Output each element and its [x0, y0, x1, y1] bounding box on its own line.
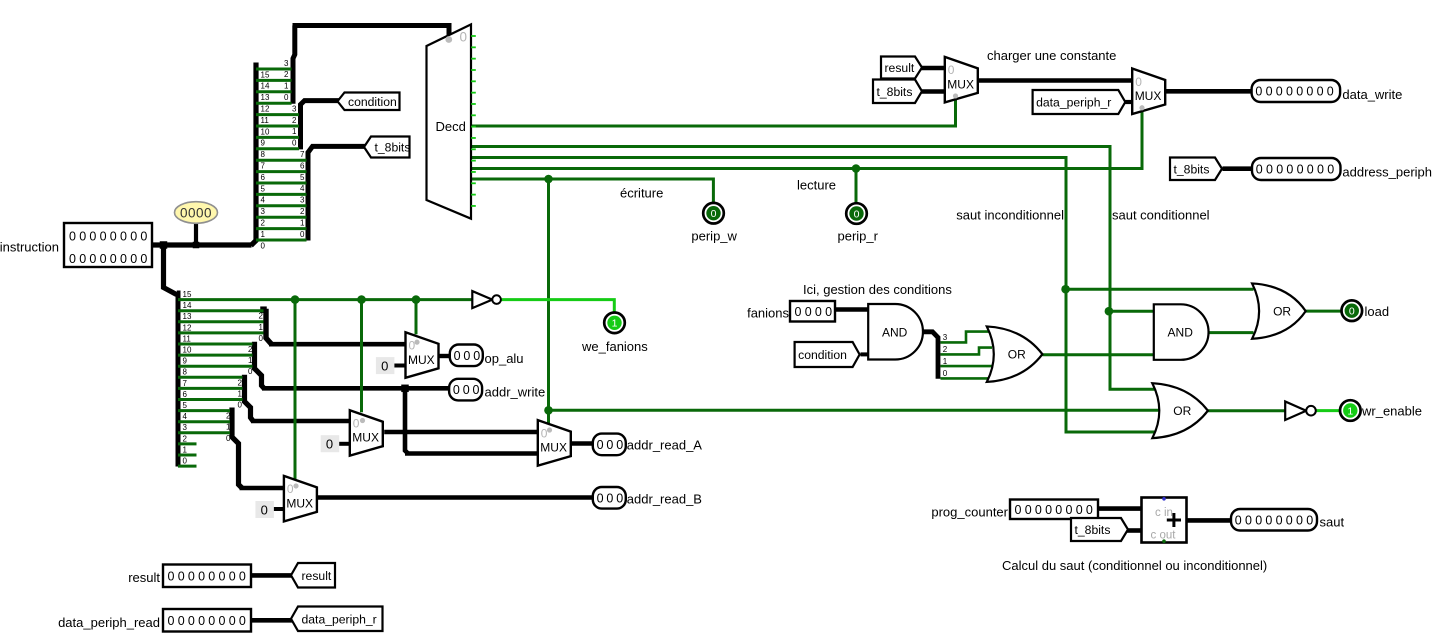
svg-text:2: 2 — [292, 116, 297, 125]
svg-text:MUX: MUX — [1135, 89, 1162, 103]
svg-text:0: 0 — [287, 482, 294, 496]
svg-text:perip_r: perip_r — [838, 229, 879, 244]
svg-text:AND: AND — [1168, 326, 1194, 340]
svg-text:3: 3 — [284, 59, 289, 68]
svg-text:OR: OR — [1273, 305, 1291, 319]
svg-text:7: 7 — [261, 162, 266, 171]
svg-text:2: 2 — [943, 345, 948, 354]
svg-text:00000000: 00000000 — [1015, 503, 1097, 517]
svg-text:0: 0 — [300, 230, 305, 239]
svg-text:MUX: MUX — [408, 353, 435, 367]
svg-text:MUX: MUX — [286, 496, 313, 510]
svg-text:address_periph: address_periph — [1342, 164, 1432, 179]
svg-text:2: 2 — [238, 378, 243, 387]
svg-text:3: 3 — [300, 196, 305, 205]
svg-text:2: 2 — [284, 70, 289, 79]
svg-text:data_write: data_write — [1342, 87, 1402, 102]
svg-text:00000000: 00000000 — [1255, 85, 1337, 99]
svg-text:1: 1 — [612, 318, 618, 330]
svg-text:c in: c in — [1155, 507, 1173, 519]
svg-text:8: 8 — [183, 368, 188, 377]
svg-text:2: 2 — [248, 345, 253, 354]
svg-text:000: 000 — [454, 349, 483, 363]
svg-text:4: 4 — [261, 196, 266, 205]
svg-text:prog_counter: prog_counter — [931, 505, 1008, 520]
svg-text:10: 10 — [261, 127, 270, 136]
svg-text:13: 13 — [261, 93, 270, 102]
svg-text:14: 14 — [261, 82, 270, 91]
svg-text:6: 6 — [261, 173, 266, 182]
svg-text:3: 3 — [261, 207, 266, 216]
svg-text:0: 0 — [353, 417, 360, 431]
svg-text:1: 1 — [943, 357, 948, 366]
svg-text:8: 8 — [261, 150, 266, 159]
svg-text:1: 1 — [248, 356, 253, 365]
svg-text:00000000: 00000000 — [69, 252, 151, 266]
svg-text:13: 13 — [183, 312, 192, 321]
svg-text:1: 1 — [284, 82, 289, 91]
svg-text:0: 0 — [381, 359, 388, 374]
svg-text:0: 0 — [854, 208, 860, 220]
svg-text:0: 0 — [1349, 306, 1355, 318]
svg-text:0: 0 — [943, 369, 948, 378]
svg-text:0: 0 — [409, 339, 416, 353]
svg-text:0: 0 — [460, 30, 468, 45]
svg-text:0: 0 — [226, 434, 231, 443]
svg-text:00000000: 00000000 — [168, 614, 250, 628]
svg-text:condition: condition — [348, 95, 397, 109]
svg-text:Decd: Decd — [436, 119, 466, 134]
svg-text:result: result — [302, 569, 332, 583]
svg-text:result: result — [128, 570, 160, 585]
svg-text:data_periph_r: data_periph_r — [1036, 96, 1111, 110]
svg-text:0: 0 — [261, 241, 266, 250]
svg-text:addr_read_A: addr_read_A — [627, 438, 702, 453]
svg-text:écriture: écriture — [620, 186, 663, 201]
svg-text:0: 0 — [183, 457, 188, 466]
svg-text:0: 0 — [948, 63, 955, 77]
svg-text:MUX: MUX — [947, 77, 974, 91]
svg-text:0: 0 — [284, 93, 289, 102]
svg-text:2: 2 — [300, 207, 305, 216]
svg-text:7: 7 — [183, 379, 188, 388]
svg-text:00000000: 00000000 — [69, 229, 151, 243]
svg-text:0000: 0000 — [795, 305, 836, 319]
svg-text:00000000: 00000000 — [1256, 163, 1338, 177]
svg-text:000: 000 — [597, 491, 626, 505]
svg-text:Ici, gestion des conditions: Ici, gestion des conditions — [803, 282, 952, 297]
svg-text:0: 0 — [238, 401, 243, 410]
svg-text:charger une constante: charger une constante — [987, 48, 1116, 63]
svg-text:t_8bits: t_8bits — [1174, 162, 1210, 176]
svg-text:00000000: 00000000 — [1235, 513, 1317, 527]
svg-text:1: 1 — [238, 389, 243, 398]
svg-text:0: 0 — [259, 334, 264, 343]
svg-text:t_8bits: t_8bits — [1075, 523, 1111, 537]
svg-text:3: 3 — [292, 104, 297, 113]
svg-text:OR: OR — [1173, 404, 1191, 418]
svg-text:0: 0 — [248, 367, 253, 376]
svg-text:result: result — [885, 61, 915, 75]
svg-text:addr_write: addr_write — [485, 385, 546, 400]
svg-text:000: 000 — [597, 438, 626, 452]
svg-text:0: 0 — [541, 426, 548, 440]
svg-text:MUX: MUX — [352, 431, 379, 445]
svg-text:12: 12 — [183, 323, 192, 332]
svg-text:15: 15 — [261, 70, 270, 79]
svg-text:6: 6 — [300, 161, 305, 170]
svg-text:6: 6 — [183, 390, 188, 399]
svg-text:000: 000 — [453, 383, 482, 397]
svg-text:5: 5 — [300, 173, 305, 182]
svg-text:t_8bits: t_8bits — [375, 141, 411, 155]
svg-text:15: 15 — [183, 290, 192, 299]
svg-text:4: 4 — [300, 184, 305, 193]
svg-text:we_fanions: we_fanions — [581, 339, 648, 354]
svg-text:3: 3 — [183, 423, 188, 432]
svg-text:12: 12 — [261, 105, 270, 114]
svg-text:0000: 0000 — [180, 205, 212, 220]
svg-text:saut inconditionnel: saut inconditionnel — [956, 208, 1064, 223]
svg-text:14: 14 — [183, 301, 192, 310]
svg-text:saut: saut — [1320, 515, 1345, 530]
svg-text:7: 7 — [300, 150, 305, 159]
svg-text:OR: OR — [1008, 348, 1026, 362]
svg-text:5: 5 — [183, 401, 188, 410]
svg-text:saut conditionnel: saut conditionnel — [1112, 208, 1210, 223]
svg-text:5: 5 — [261, 184, 266, 193]
svg-text:9: 9 — [183, 357, 188, 366]
svg-text:4: 4 — [183, 412, 188, 421]
svg-text:Calcul du saut (conditionnel o: Calcul du saut (conditionnel ou incondit… — [1002, 558, 1267, 573]
svg-text:0: 0 — [326, 437, 333, 452]
svg-text:11: 11 — [261, 116, 270, 125]
svg-text:perip_w: perip_w — [691, 229, 737, 244]
svg-text:2: 2 — [259, 312, 264, 321]
svg-text:t_8bits: t_8bits — [877, 85, 913, 99]
svg-text:1: 1 — [183, 445, 188, 454]
svg-text:1: 1 — [261, 230, 266, 239]
svg-text:1: 1 — [292, 127, 297, 136]
svg-text:00000000: 00000000 — [168, 569, 250, 583]
svg-text:wr_enable: wr_enable — [1361, 404, 1422, 419]
svg-text:0: 0 — [292, 139, 297, 148]
svg-text:0: 0 — [261, 503, 268, 518]
svg-text:3: 3 — [943, 333, 948, 342]
svg-text:10: 10 — [183, 346, 192, 355]
svg-text:condition: condition — [798, 348, 847, 362]
svg-text:11: 11 — [183, 334, 192, 343]
svg-text:0: 0 — [1135, 75, 1142, 89]
svg-text:addr_read_B: addr_read_B — [627, 492, 702, 507]
svg-text:2: 2 — [261, 219, 266, 228]
svg-text:fanions: fanions — [747, 306, 789, 321]
svg-text:AND: AND — [882, 325, 908, 339]
svg-text:1: 1 — [1347, 405, 1353, 417]
svg-text:load: load — [1365, 304, 1390, 319]
svg-text:MUX: MUX — [540, 441, 567, 455]
svg-text:1: 1 — [300, 218, 305, 227]
svg-text:9: 9 — [261, 139, 266, 148]
svg-text:data_periph_read: data_periph_read — [58, 615, 160, 630]
svg-text:1: 1 — [226, 423, 231, 432]
svg-text:lecture: lecture — [797, 178, 836, 193]
svg-text:op_alu: op_alu — [485, 351, 524, 366]
svg-text:instruction: instruction — [0, 240, 59, 255]
svg-text:0: 0 — [711, 208, 717, 220]
svg-text:data_periph_r: data_periph_r — [302, 612, 377, 626]
svg-text:2: 2 — [226, 412, 231, 421]
svg-text:2: 2 — [183, 434, 188, 443]
svg-text:1: 1 — [259, 323, 264, 332]
